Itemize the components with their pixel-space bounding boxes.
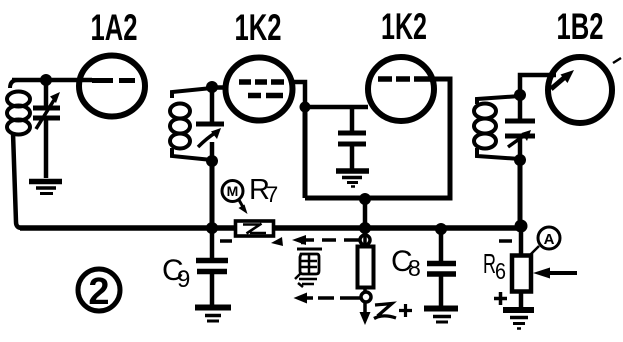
label R6 — [483, 248, 506, 284]
node bus right end junction — [515, 220, 528, 233]
variable capacitor C1 plates — [33, 80, 60, 129]
wire C1 to ground — [44, 120, 49, 178]
pointer M to R7 — [239, 200, 248, 214]
arrow battery down — [360, 303, 371, 325]
tube V1 grid dashes — [92, 78, 135, 83]
svg-text:1B2: 1B2 — [557, 6, 604, 47]
label Z+ battery — [374, 304, 412, 319]
svg-text:9: 9 — [177, 266, 190, 293]
svg-text:1K2: 1K2 — [381, 6, 427, 47]
wire stage4 node up to V4 — [520, 75, 556, 95]
switch symbol glyph — [295, 243, 322, 287]
wire L1 bottom down to bus — [13, 133, 22, 228]
ground stage1 — [29, 182, 62, 194]
wire anode node to V3 — [305, 105, 368, 110]
antenna symbol A circled — [529, 227, 560, 256]
capacitor C9 — [196, 228, 228, 305]
tube V3 envelope — [368, 57, 434, 121]
tube V1 envelope — [79, 56, 145, 117]
svg-text:1A2: 1A2 — [91, 7, 138, 48]
wire anode node down — [303, 107, 308, 198]
svg-text:6: 6 — [495, 258, 506, 284]
node stage4 top junction — [514, 89, 526, 101]
label C9 — [162, 254, 190, 293]
wire V3 anode down and across — [305, 79, 450, 198]
wire main bus right segment — [272, 225, 521, 231]
label tube V2 "1K2" — [235, 7, 282, 48]
wire main bus left segment — [20, 225, 236, 231]
arrow wiper R6 — [533, 268, 577, 279]
tube V4 anode arrow — [551, 70, 574, 89]
minus sign near R6 — [499, 239, 512, 243]
dashed linkage arrow upper — [292, 235, 359, 245]
coil L2 — [170, 88, 212, 160]
capacitor C8 — [427, 229, 456, 306]
resistor R6 — [512, 228, 531, 308]
tube V4 envelope — [548, 57, 612, 123]
svg-text:8: 8 — [408, 255, 421, 281]
node bus center junction — [359, 222, 371, 234]
node screen junction — [359, 193, 371, 205]
small wiper arrow tick — [271, 237, 283, 246]
ground C9 — [195, 308, 231, 322]
node stage4 bottom junction — [514, 154, 526, 166]
mark top-right tick — [613, 58, 621, 63]
meter symbol M circled — [222, 181, 243, 202]
svg-text:7: 7 — [266, 182, 278, 207]
svg-text:2: 2 — [88, 271, 109, 313]
tube V3 grid dashes — [378, 76, 431, 82]
figure number circled 2 — [78, 269, 120, 313]
minus sign near C9 — [220, 239, 232, 243]
label R7 — [249, 174, 278, 207]
resistor filament (vertical, unlabeled) — [358, 233, 374, 303]
coil L3 — [474, 96, 520, 159]
node bus C9 junction — [206, 222, 218, 234]
wire junction to grid V2 — [212, 85, 227, 90]
node gang connector upper — [360, 235, 370, 245]
wire stage4 down to bus — [518, 160, 523, 227]
svg-text:A: A — [544, 231, 555, 248]
variable capacitor C4 — [505, 95, 535, 160]
wire V2 anode to node — [290, 82, 305, 107]
dashed linkage arrow lower — [294, 293, 361, 304]
ground C8 — [424, 309, 458, 323]
tube V2 grid dashes — [239, 82, 284, 96]
capacitor C3 (interstage) — [338, 107, 366, 169]
wire screen node to bus — [363, 199, 368, 228]
node V2 anode junction — [300, 102, 311, 113]
wire L1 top to grid V1 — [12, 78, 92, 83]
wire stage2 down to bus — [210, 161, 215, 228]
label C8 — [391, 245, 421, 281]
node bus C8 junction — [435, 223, 447, 235]
ground C3 — [336, 171, 369, 187]
plus sign near R6 — [494, 292, 507, 305]
variable capacitor C2 — [196, 87, 224, 161]
svg-text:1K2: 1K2 — [235, 7, 282, 48]
coil L1 — [7, 80, 30, 135]
label tube V4 "1B2" — [557, 6, 604, 47]
svg-text:M: M — [227, 183, 239, 199]
node gang connector lower — [361, 292, 371, 302]
node stage2 bottom junction — [206, 155, 218, 167]
ground R6 — [503, 310, 534, 329]
resistor R7 (rheostat) — [236, 221, 274, 236]
node stage2 top junction — [206, 81, 218, 93]
label tube V3 "1K2" — [381, 6, 427, 47]
tube V2 envelope — [226, 58, 293, 121]
node stage1 top junction — [40, 74, 52, 86]
label tube V1 "1A2" — [91, 7, 138, 48]
